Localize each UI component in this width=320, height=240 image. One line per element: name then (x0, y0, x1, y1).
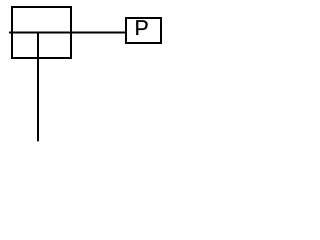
wire: vertical line down from block interior (37, 32, 39, 141)
port box P (126, 18, 161, 43)
wire: horizontal line from left overhang through block to port box P (9, 32, 126, 34)
block B1 (divided rectangle body) (12, 7, 71, 58)
label P (136, 20, 147, 35)
